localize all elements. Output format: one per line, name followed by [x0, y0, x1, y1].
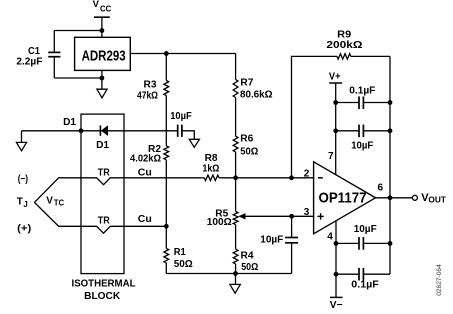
svg-text:200kΩ: 200kΩ — [326, 40, 362, 51]
svg-text:BLOCK: BLOCK — [84, 291, 121, 302]
svg-text:TR: TR — [98, 216, 111, 227]
svg-text:T: T — [17, 197, 23, 208]
svg-text:47kΩ: 47kΩ — [137, 90, 158, 101]
svg-text:Cu: Cu — [138, 214, 152, 225]
svg-text:V: V — [46, 195, 53, 206]
resistor R9 200k feedback — [292, 29, 391, 177]
node R9 pin2 junction — [289, 175, 294, 180]
wire R8 to op-amp pin2 — [222, 177, 314, 179]
svg-text:Cu: Cu — [138, 167, 152, 178]
node reference output junction — [164, 51, 169, 56]
wire V+ column to pin7 — [335, 103, 337, 176]
svg-text:ADR293: ADR293 — [82, 47, 126, 64]
capacitor 10uF at pin3 — [260, 216, 298, 273]
thermocouple VTC upper wire with TR junction — [34, 167, 201, 202]
svg-text:TR: TR — [98, 168, 111, 179]
resistor R4 50 — [233, 249, 258, 273]
svg-text:D1: D1 — [96, 140, 109, 151]
svg-text:R3: R3 — [144, 80, 157, 91]
resistor R3 47k — [137, 54, 169, 146]
svg-text:50Ω: 50Ω — [240, 146, 258, 157]
power V- — [330, 297, 343, 311]
svg-text:R4: R4 — [241, 250, 254, 261]
wire ADR293 output to R7 — [130, 53, 235, 55]
isothermal block box — [72, 114, 136, 302]
node bottom rail junction — [233, 271, 238, 276]
node C1 bottom junction — [100, 76, 105, 81]
capacitor 10uF near R3 — [170, 111, 194, 139]
wire C1 bottom to ADR293 ground stem — [54, 77, 102, 79]
svg-text:10µF: 10µF — [170, 111, 192, 122]
svg-text:50Ω: 50Ω — [174, 259, 193, 270]
capacitor 10uF second — [336, 125, 390, 152]
wire output — [376, 197, 413, 199]
svg-text:(−): (−) — [18, 174, 28, 185]
node pin4 cap4 left — [334, 272, 339, 277]
svg-text:R1: R1 — [174, 247, 186, 258]
svg-text:R6: R6 — [240, 133, 253, 144]
svg-text:V+: V+ — [329, 71, 341, 82]
voltage reference ADR293 — [75, 37, 131, 70]
node right cap1 — [388, 100, 393, 105]
ground below 10uF cap — [189, 139, 199, 147]
svg-text:D1: D1 — [63, 117, 76, 128]
svg-text:4.02kΩ: 4.02kΩ — [130, 153, 161, 164]
wire VCC node to C1 top — [54, 30, 102, 32]
capacitor 10uF at pin4 — [336, 224, 390, 250]
svg-text:0.1µF: 0.1µF — [351, 280, 379, 291]
svg-text:CC: CC — [100, 4, 112, 13]
svg-text:TC: TC — [54, 199, 65, 208]
resistor R2 4.02k — [130, 144, 169, 226]
svg-text:02627-064: 02627-064 — [436, 264, 443, 296]
svg-text:100Ω: 100Ω — [207, 217, 232, 228]
node V+ cap2 left — [333, 128, 338, 133]
svg-text:10µF: 10µF — [351, 140, 373, 151]
label TJ (-) (+) VTC — [17, 174, 65, 235]
terminal VOUT — [412, 192, 446, 204]
svg-text:6: 6 — [378, 183, 384, 194]
svg-text:3: 3 — [304, 207, 310, 218]
resistor R5 100 trimmer — [207, 178, 238, 249]
node output junction — [388, 195, 393, 200]
op-amp OP1177 — [304, 151, 384, 242]
svg-text:2: 2 — [304, 169, 310, 180]
node R6 junction — [233, 175, 238, 180]
diode D1 — [63, 117, 109, 151]
svg-text:0.1µF: 0.1µF — [349, 85, 375, 96]
svg-text:OP1177: OP1177 — [319, 190, 367, 207]
svg-text:7: 7 — [328, 151, 334, 162]
resistor R6 50 — [233, 133, 258, 178]
capacitor 0.1uF bottom — [336, 268, 390, 291]
ground below ADR293 — [97, 70, 107, 97]
svg-text:ISOTHERMAL: ISOTHERMAL — [72, 279, 136, 290]
node V+ cap1 left — [333, 100, 338, 105]
figure number 02627-064 — [436, 264, 443, 296]
capacitor C1 — [16, 31, 60, 79]
capacitor 0.1uF top — [336, 85, 390, 109]
svg-text:C1: C1 — [28, 46, 40, 57]
svg-text:2.2µF: 2.2µF — [16, 56, 42, 67]
svg-text:10µF: 10µF — [354, 224, 377, 235]
node right cap2 — [388, 128, 393, 133]
resistor R1 50 — [164, 226, 193, 273]
svg-text:R9: R9 — [337, 29, 351, 40]
ground left of D1 — [16, 131, 26, 151]
power VCC — [93, 0, 112, 37]
node D1 anode junction — [79, 128, 84, 133]
wire pin4 column to V- — [335, 222, 337, 298]
svg-text:R7: R7 — [240, 77, 253, 88]
node right cap3 — [388, 241, 393, 246]
power V+ — [329, 71, 342, 102]
svg-text:50Ω: 50Ω — [241, 262, 258, 273]
node VCC junction — [100, 28, 105, 33]
wire right column — [389, 56, 391, 274]
wire bottom rail — [166, 273, 291, 275]
R5 wiper arrow — [238, 213, 313, 219]
svg-text:V−: V− — [330, 300, 343, 311]
thermocouple VTC lower wire with TR junction — [34, 202, 166, 233]
svg-text:V: V — [93, 0, 100, 10]
svg-text:OUT: OUT — [428, 196, 446, 205]
node pin3 junction — [289, 214, 294, 219]
node pin4 cap3 left — [334, 241, 339, 246]
svg-text:R8: R8 — [205, 153, 218, 164]
resistor R7 80.6k — [233, 54, 272, 137]
svg-text:80.6kΩ: 80.6kΩ — [240, 90, 273, 101]
wire D1 rail — [22, 130, 178, 132]
svg-text:J: J — [23, 200, 27, 209]
ground bottom rail — [230, 274, 240, 294]
svg-text:4: 4 — [327, 231, 333, 242]
svg-text:(+): (+) — [17, 224, 31, 235]
node lower Cu junction — [164, 224, 169, 229]
svg-text:10µF: 10µF — [260, 235, 283, 246]
svg-text:1kΩ: 1kΩ — [202, 164, 219, 175]
resistor R8 1k — [202, 153, 222, 181]
